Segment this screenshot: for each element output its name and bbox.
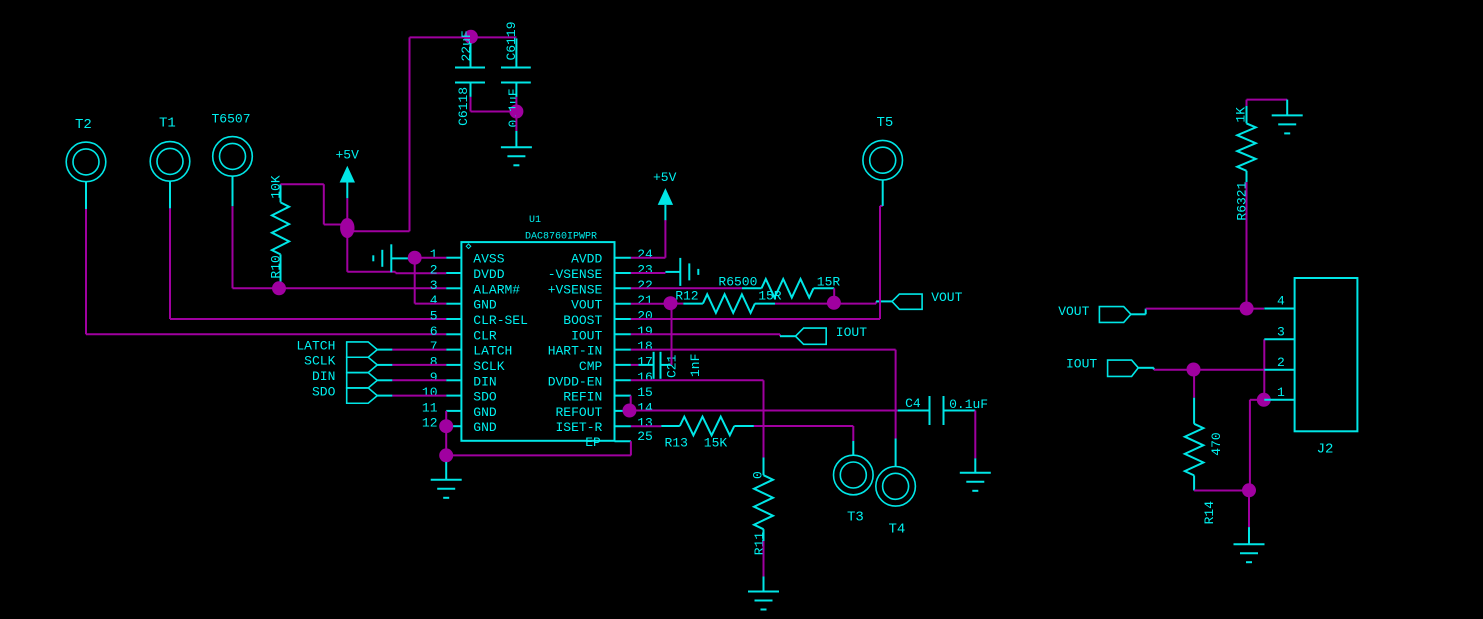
svg-text:ALARM#: ALARM# [473,282,520,297]
testpoint T4 [876,467,916,538]
wire DVDD-EN pin 16 to R11 [631,380,764,457]
resistor R6321 1K [1234,105,1256,221]
svg-text:2: 2 [430,263,438,278]
svg-text:2: 2 [1277,355,1285,370]
wire J2 pin1 to ground rail [1250,400,1258,491]
svg-text:+5V: +5V [336,148,360,163]
svg-text:+5V: +5V [653,170,677,185]
pin 13 ISET-R (right stub) [555,416,652,436]
svg-text:4: 4 [1277,294,1285,309]
svg-text:SCLK: SCLK [473,359,504,374]
testpoint T3 [834,455,874,525]
wire R6321 bottom to J2 pin 4 [1246,182,1248,308]
wire ground node down [1248,496,1250,527]
pin 9 DIN (left stub) [430,370,497,390]
svg-text:T6507: T6507 [212,111,251,126]
wire R6321 top to ground [1247,100,1288,106]
wire BOOST pin 20 to T5 [631,206,883,319]
port IOUT (right) [1066,356,1154,376]
wire DIN to pin 9 [392,379,446,381]
svg-text:0.1uF: 0.1uF [506,88,521,127]
pin 11 GND (left stub) [422,400,497,420]
svg-text:IOUT: IOUT [1066,356,1097,371]
svg-text:25: 25 [637,429,653,444]
svg-text:HART-IN: HART-IN [548,344,603,359]
wire T2 to CLR pin 6 [86,182,446,335]
wire cap rail to C6119 [471,36,517,38]
J2 pin 2 stub [1264,355,1294,370]
wire C6118 bottom [471,97,517,112]
svg-text:SDO: SDO [312,384,336,399]
svg-text:1: 1 [1277,385,1285,400]
svg-text:6: 6 [430,324,438,339]
wire VOUT node to port [839,301,892,303]
pin 4 GND (left stub) [430,293,497,313]
svg-text:R11: R11 [752,532,767,556]
pin 16 DVDD-EN (right stub) [548,370,653,390]
svg-text:IOUT: IOUT [836,325,867,340]
wire R6500 to VOUT node [833,288,835,303]
junction REFIN-REFOUT node [623,404,637,418]
svg-text:9: 9 [430,370,438,385]
pin 12 GND (left stub) [422,416,497,436]
testpoint T6507 [212,111,253,176]
svg-text:470: 470 [1209,432,1224,455]
port LATCH [296,338,392,357]
junction pin12 GND [439,419,453,433]
svg-text:GND: GND [473,298,497,313]
svg-text:21: 21 [637,293,653,308]
svg-text:VOUT: VOUT [931,290,962,305]
pin 22 +VSENSE (right stub) [548,278,653,298]
wire +5V to DVDD pin 2 [347,236,446,273]
wire AVSS junction down to GND pin 4 [415,263,447,304]
svg-text:SDO: SDO [473,390,497,405]
wire C6119 bottom to ground [515,97,517,131]
wire +VSENSE pin 22 to R6500 [631,287,742,289]
svg-text:10K: 10K [269,175,284,199]
svg-text:T1: T1 [159,115,176,131]
svg-text:R14: R14 [1202,501,1217,525]
svg-text:0.1uF: 0.1uF [949,397,988,412]
wire R11 bottom [763,541,765,577]
svg-text:REFOUT: REFOUT [555,405,602,420]
port VOUT (right) [1058,304,1146,322]
svg-text:15K: 15K [704,435,728,450]
svg-text:24: 24 [637,247,653,262]
pin 5 CLR-SEL (left stub) [430,309,528,329]
svg-text:LATCH: LATCH [296,338,335,353]
svg-text:19: 19 [637,324,653,339]
svg-text:U1: U1 [529,215,541,226]
svg-text:VOUT: VOUT [1058,304,1089,319]
svg-text:1nF: 1nF [688,354,703,377]
svg-text:CMP: CMP [579,359,603,374]
ground (-VSENSE, rotated right) [680,258,698,286]
capacitor C6119 0.1uF [501,21,531,127]
svg-text:C4: C4 [905,396,921,411]
svg-text:C6118: C6118 [456,87,471,126]
wire IOUT port to J2 pin 2 [1154,369,1265,371]
J2 pin 4 stub [1264,294,1294,309]
pin 3 ALARM# (left stub) [430,278,521,298]
ground (J2) [1234,527,1265,562]
svg-text:SCLK: SCLK [304,354,335,369]
op-amp U1 DAC8760IPWPR box [461,215,614,441]
svg-text:15R: 15R [817,274,841,289]
port VOUT (mid) [892,290,963,309]
wire VOUT port to J2 pin 4 [1146,308,1264,310]
svg-text:R13: R13 [665,435,688,450]
pin 8 SCLK (left stub) [430,354,505,374]
resistor R12 15R [675,289,782,313]
wire C21 to VOUT pin21 node [671,303,672,365]
svg-text:AVDD: AVDD [571,252,602,267]
svg-text:DIN: DIN [473,374,496,389]
svg-text:GND: GND [473,405,497,420]
pin 18 HART-IN (right stub) [548,339,653,359]
resistor R10 10K [269,175,290,288]
svg-text:15R: 15R [758,289,782,304]
svg-text:22uF: 22uF [459,30,474,61]
svg-text:1: 1 [430,247,438,262]
wire HART-IN pin 18 to T4 [631,350,896,439]
pin 17 CMP (right stub) [579,354,653,374]
junction IOUT-R14 node [1187,363,1201,377]
testpoint T5 [863,115,903,180]
testpoint T1 [150,115,190,181]
svg-text:CLR-SEL: CLR-SEL [473,313,528,328]
svg-text:CLR: CLR [473,328,497,343]
pin 7 LATCH (left stub) [430,339,513,359]
svg-text:8: 8 [430,354,438,369]
wire EP to GND node [446,441,631,455]
svg-text:VOUT: VOUT [571,298,602,313]
wire J2 pins 3-2-1 tie [1263,339,1265,400]
svg-text:18: 18 [637,339,653,354]
svg-text:J2: J2 [1317,442,1334,458]
wire R12 to VOUT node [775,303,834,305]
svg-text:R12: R12 [675,289,698,304]
svg-text:10: 10 [422,385,438,400]
wire R13 to T3 [754,426,853,441]
junction R10 bottom on ALARM# net [272,281,286,295]
svg-text:BOOST: BOOST [563,313,602,328]
svg-text:14: 14 [637,400,653,415]
svg-text:IOUT: IOUT [571,328,602,343]
wire T4 lead [895,439,897,467]
svg-text:EP: EP [585,435,601,450]
svg-text:5: 5 [430,309,438,324]
capacitor C4 0.1uF [898,396,988,425]
svg-text:T3: T3 [847,510,864,526]
wire R14 bottom to ground node [1194,490,1249,492]
junction J2 pin 4 node [1240,302,1254,316]
svg-text:ISET-R: ISET-R [555,420,602,435]
wire +5V stem [346,198,348,219]
testpoint T2 [66,117,106,182]
svg-text:-VSENSE: -VSENSE [548,267,603,282]
pin 23 -VSENSE (right stub) [548,263,653,283]
wire T6507 to ALARM# pin 3 [233,176,447,288]
svg-text:22: 22 [637,278,653,293]
svg-text:T2: T2 [75,117,92,133]
junction +5V node [340,218,354,238]
port SDO [312,384,392,403]
ground (C4) [960,458,991,491]
svg-text:11: 11 [422,400,438,415]
power +5V (left) [336,148,360,199]
svg-text:LATCH: LATCH [473,344,512,359]
capacitor C6118 22uF [455,30,485,126]
svg-text:4: 4 [430,293,438,308]
pin 19 IOUT (right stub) [571,324,653,344]
junction GND node bottom-left [439,448,453,462]
wire +5V to AVDD pin 24 [631,220,666,258]
connector J2 box [1295,278,1358,458]
svg-text:DIN: DIN [312,369,335,384]
port SCLK [304,354,392,373]
pin 21 VOUT (right stub) [571,293,653,313]
resistor R13 15K [661,417,754,451]
port DIN [312,369,392,388]
svg-text:15: 15 [637,385,653,400]
wire REFIN pin 15 tie [630,396,632,411]
ground (U1 GND pins) [431,462,462,498]
wire AVSS junction to pin 1 [420,257,446,259]
wire SDO to pin 10 [392,395,446,397]
svg-text:7: 7 [430,339,438,354]
pin 2 DVDD (left stub) [430,263,505,283]
svg-text:DVDD: DVDD [473,267,504,282]
svg-text:T5: T5 [877,115,894,131]
J2 pin 3 stub [1264,325,1294,340]
junction AVSS node [408,251,422,265]
wire C4 to ground [974,411,976,459]
svg-text:AVSS: AVSS [473,252,504,267]
ground (decoupling caps) [501,131,532,165]
wire T5 lead [882,180,884,206]
svg-text:T4: T4 [889,522,906,538]
resistor R11 0 [751,458,774,556]
junction VOUT pin 21 node [664,296,678,310]
pin 10 SDO (left stub) [422,385,497,405]
wire ISET-R pin 13 to R13 [631,425,661,427]
wire -VSENSE pin 23 [631,272,680,273]
wire T1 to CLR-SEL pin 5 [170,181,446,319]
power +5V (right) [653,170,677,221]
wire IOUT pin 19 to port [631,334,796,336]
wire T3 lead [852,441,854,455]
svg-text:C6119: C6119 [504,21,519,60]
svg-text:3: 3 [430,278,438,293]
J2 pin 1 stub [1264,385,1294,400]
ground (AVSS, rotated left) [373,244,408,272]
svg-text:17: 17 [637,354,653,369]
svg-text:R10: R10 [269,255,284,278]
junction J2 pin 1 node [1257,393,1271,407]
junction cap ground node [509,105,523,119]
svg-text:DAC8760IPWPR: DAC8760IPWPR [525,232,597,243]
pin 14 REFOUT (right stub) [555,400,653,420]
svg-text:1K: 1K [1234,107,1249,123]
pin 25 EP (right stub) [585,429,653,450]
ground (R11) [748,577,779,610]
svg-text:20: 20 [637,309,653,324]
wire CMP pin 17 stub ext [631,364,639,366]
junction VOUT output node [827,296,841,310]
svg-text:DVDD-EN: DVDD-EN [548,374,603,389]
pin 1 AVSS (left stub) [430,247,505,267]
port IOUT (mid) [796,325,868,344]
resistor R14 470 [1185,375,1224,524]
wire R10 top to +5V node [281,184,343,224]
svg-text:12: 12 [422,416,438,431]
pin 24 AVDD (right stub) [571,247,653,267]
pin 6 CLR (left stub) [430,324,497,344]
wire VOUT pin 21 [631,303,683,305]
svg-text:GND: GND [473,420,497,435]
svg-text:16: 16 [637,370,653,385]
resistor R6500 15R [718,274,840,297]
svg-text:23: 23 [637,263,653,278]
wire LATCH to pin 7 [392,349,446,351]
svg-text:R6500: R6500 [718,274,757,289]
pin 20 BOOST (right stub) [563,309,653,329]
svg-text:+VSENSE: +VSENSE [548,282,603,297]
wire REFOUT pin 14 to C4 [635,410,898,412]
svg-text:REFIN: REFIN [563,390,602,405]
pin 15 REFIN (right stub) [563,385,653,405]
wire +5V to decoupling rail [353,37,471,231]
wire SCLK to pin 8 [392,364,446,366]
ground (R6321, top right) [1272,100,1303,134]
junction cap rail [464,30,478,44]
svg-text:3: 3 [1277,325,1285,340]
capacitor C21 1nF [639,352,704,379]
wire GND pins 11-12 tie [445,411,447,456]
junction R14 ground node [1242,483,1256,497]
svg-text:0: 0 [751,471,766,479]
